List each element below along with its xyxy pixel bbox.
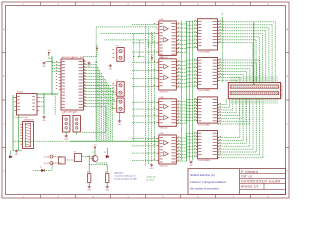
svg-text:P?: P? — [116, 46, 118, 48]
svg-text:02/05/2010 iout9: 02/05/2010 iout9 — [241, 180, 281, 184]
svg-text:Sheets 1/1: Sheets 1/1 — [241, 185, 259, 189]
svg-text:74HC125: 74HC125 — [159, 128, 168, 130]
svg-text:CONN_MEMOIRE: CONN_MEMOIRE — [281, 83, 283, 99]
svg-text:P?: P? — [63, 113, 65, 115]
svg-text:CAP_ucl: CAP_ucl — [241, 174, 253, 178]
svg-text:P?: P? — [116, 80, 118, 82]
svg-text:A_IN2: A_IN2 — [44, 162, 49, 165]
svg-text:U2A: U2A — [159, 18, 164, 21]
svg-text:RS232: RS232 — [17, 91, 24, 93]
svg-text:U3A: U3A — [159, 56, 164, 59]
svg-text:Shield arduino (c): Shield arduino (c) — [190, 173, 215, 177]
svg-text:CHARGEUR: CHARGEUR — [24, 119, 35, 122]
svg-text:P?: P? — [73, 113, 75, 115]
svg-text:P. Minard: P. Minard — [241, 170, 259, 174]
svg-text:Connecteur carte: Connecteur carte — [15, 116, 28, 119]
svg-text:A_IN1: A_IN1 — [44, 155, 49, 158]
svg-text:74HC125: 74HC125 — [159, 165, 168, 167]
svg-text:ARDUINO_SHIELD_ANA: ARDUINO_SHIELD_ANA — [62, 56, 85, 59]
svg-text:X24C16MEM: X24C16MEM — [198, 90, 210, 92]
svg-text:de cartes a memoire: de cartes a memoire — [190, 186, 219, 190]
svg-text:R?: R? — [105, 171, 107, 173]
svg-text:Q?: Q? — [92, 152, 94, 154]
svg-text:Lecteur / programmateur: Lecteur / programmateur — [190, 180, 226, 184]
svg-text:P?: P? — [116, 96, 118, 98]
svg-text:bouton incorpore de LED: bouton incorpore de LED — [115, 178, 138, 181]
svg-text:U4A: U4A — [159, 96, 164, 99]
svg-text:D?: D? — [40, 167, 42, 169]
svg-text:K?: K? — [74, 151, 76, 153]
svg-text:R?: R? — [87, 171, 89, 173]
svg-text:X24C16MEM: X24C16MEM — [198, 51, 210, 53]
svg-text:shield_lect: shield_lect — [147, 175, 157, 178]
svg-text:D?: D? — [104, 152, 106, 154]
svg-text:Ce port est utilise par le: Ce port est utilise par le — [115, 175, 137, 178]
svg-text:74HC125: 74HC125 — [159, 91, 168, 93]
svg-text:Attention !: Attention ! — [115, 172, 125, 175]
svg-text:X24C16MEM: X24C16MEM — [198, 160, 210, 162]
svg-text:X24C16MEM: X24C16MEM — [198, 125, 210, 127]
svg-text:U5A: U5A — [159, 132, 164, 135]
svg-text:fb_LECT: fb_LECT — [147, 179, 156, 181]
